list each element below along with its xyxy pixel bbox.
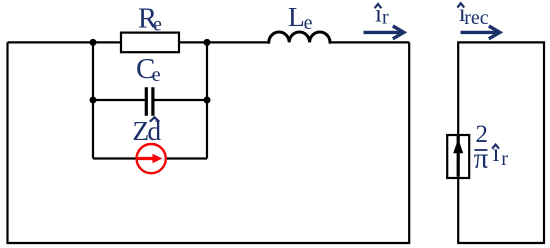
- controlled source box: [447, 135, 469, 178]
- controlled source arrow: [457, 135, 460, 177]
- current source Zd circle: [137, 144, 166, 173]
- svg-text:d: d: [147, 115, 161, 146]
- svg-text:e: e: [152, 64, 161, 86]
- current arrow i_r: [364, 31, 401, 34]
- svg-text:r: r: [382, 6, 389, 28]
- wire: top wire right segment: [330, 41, 409, 43]
- node dot top-right: [204, 39, 211, 46]
- wire: capacitor branch left: [93, 99, 145, 101]
- wire: top wire left segment: [8, 41, 122, 43]
- svg-text:π: π: [474, 143, 489, 175]
- svg-text:r: r: [501, 148, 508, 170]
- right rectifier loop: [458, 42, 544, 243]
- capacitor Ce plates: [146, 87, 153, 116]
- node dot top-left: [90, 39, 97, 46]
- resistor Re box: [121, 33, 179, 53]
- svg-text:L: L: [288, 1, 305, 32]
- svg-text:rec: rec: [464, 7, 489, 29]
- current arrow i_rec: [461, 31, 497, 34]
- inductor Le: [269, 32, 330, 42]
- node dot mid-left: [90, 97, 97, 104]
- node dot mid-right: [204, 97, 211, 104]
- current source red arrow: [137, 157, 153, 160]
- wire: right parallel rail: [206, 42, 208, 158]
- wire: left circuit outer loop (right, bottom, left sides): [8, 42, 410, 243]
- wire: left parallel rail: [92, 42, 94, 158]
- wire: capacitor branch right: [154, 99, 207, 101]
- svg-text:e: e: [153, 13, 162, 35]
- wire: top wire middle segment: [179, 41, 269, 43]
- wire: source branch: [93, 157, 207, 159]
- svg-text:e: e: [304, 12, 313, 34]
